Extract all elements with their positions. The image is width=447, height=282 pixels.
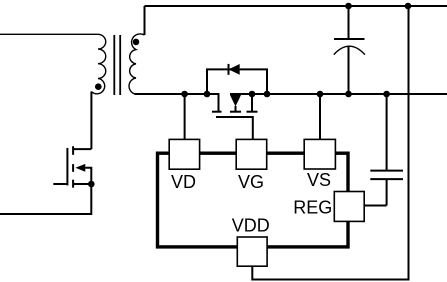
svg-text:VG: VG xyxy=(238,172,264,192)
svg-text:VS: VS xyxy=(307,170,331,190)
svg-text:VDD: VDD xyxy=(232,216,270,236)
svg-text:REG: REG xyxy=(293,197,332,217)
svg-text:VD: VD xyxy=(171,172,196,192)
